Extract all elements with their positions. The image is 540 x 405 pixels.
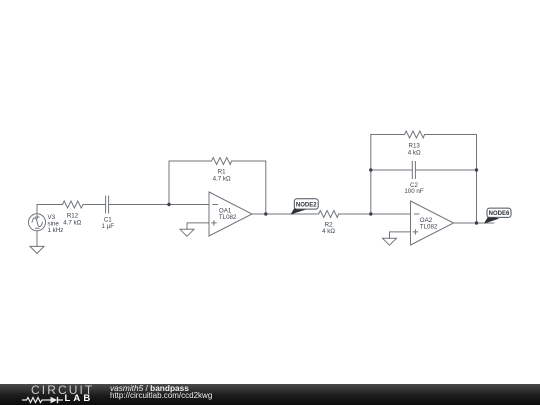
- ground (OA1): [180, 229, 194, 236]
- wire OA2 plus to ground: [390, 232, 411, 238]
- svg-text:1 kHz: 1 kHz: [48, 227, 64, 234]
- op-amp OA2: [411, 201, 454, 245]
- node NODE2 flag: [291, 199, 319, 215]
- svg-text:TL082: TL082: [219, 214, 237, 221]
- ground (OA2): [383, 238, 397, 245]
- wire feedback 1 left vertical: [168, 161, 170, 205]
- resistor R13: [405, 131, 425, 138]
- svg-text:100 nF: 100 nF: [404, 188, 423, 195]
- wire main left: [37, 204, 209, 206]
- source V3: [29, 205, 46, 247]
- resistor R1: [212, 158, 232, 165]
- wire feedback 1 top: [169, 160, 266, 162]
- capacitor C2: [412, 162, 415, 179]
- CircuitLab logo: [31, 385, 94, 396]
- svg-text:NODE6: NODE6: [489, 211, 510, 217]
- wire feedback 2 left vertical: [370, 135, 372, 215]
- resistor R12: [63, 201, 84, 208]
- wire OA2 output: [454, 222, 494, 224]
- footer bar: [0, 384, 540, 405]
- resistor R2: [319, 211, 339, 218]
- svg-text:1 µF: 1 µF: [102, 223, 115, 230]
- op-amp OA1: [209, 192, 252, 236]
- svg-text:4 kΩ: 4 kΩ: [408, 149, 421, 156]
- wire feedback 2 right vertical: [476, 135, 478, 224]
- wire C2 row: [371, 169, 477, 171]
- svg-text:4 kΩ: 4 kΩ: [322, 228, 335, 235]
- wire feedback 2 top: [371, 134, 477, 136]
- svg-text:4.7 kΩ: 4.7 kΩ: [213, 175, 231, 182]
- wire middle: [252, 213, 411, 215]
- node NODE6 flag: [484, 208, 511, 224]
- footer info: [110, 384, 189, 392]
- node junction dots: [167, 203, 170, 206]
- svg-text:TL082: TL082: [420, 223, 438, 230]
- wire OA1 plus to ground: [187, 223, 209, 229]
- ground (V3): [30, 246, 44, 253]
- svg-text:NODE2: NODE2: [296, 202, 317, 208]
- svg-text:4.7 kΩ: 4.7 kΩ: [63, 219, 81, 226]
- wire feedback 1 right vertical: [265, 161, 267, 214]
- capacitor C1: [106, 196, 109, 213]
